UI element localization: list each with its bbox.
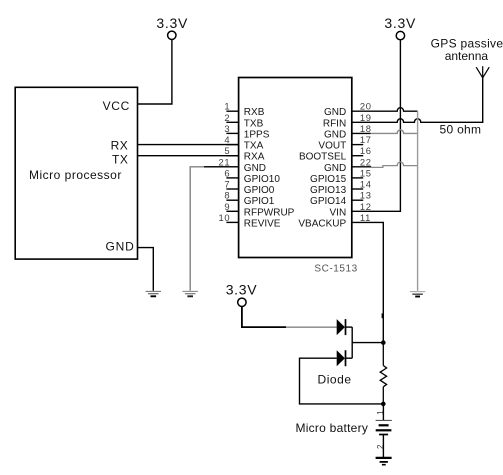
svg-text:1: 1 [224,101,230,112]
svg-text:TX: TX [112,153,128,167]
pin 10 REVIVE [218,212,280,230]
svg-text:12: 12 [360,201,372,212]
wire GND down [138,248,154,291]
svg-text:5: 5 [224,145,230,156]
svg-text:18: 18 [360,123,372,134]
svg-text:10: 10 [218,212,230,223]
svg-text:RFPWRUP: RFPWRUP [244,207,295,218]
wire GND pin21 (grey) [190,167,238,291]
diode D1 [337,319,353,335]
svg-text:GPIO14: GPIO14 [310,196,347,207]
pin 20 GND [324,101,372,119]
svg-text:SC-1513: SC-1513 [314,263,357,274]
svg-text:BOOTSEL: BOOTSEL [299,152,347,163]
pin 2 TXB [224,112,263,130]
svg-text:21: 21 [218,156,230,167]
svg-text:22: 22 [360,156,372,167]
svg-text:8: 8 [224,190,230,201]
svg-text:16: 16 [360,145,372,156]
svg-text:15: 15 [360,167,372,178]
resistor R1 [380,343,386,404]
pin 4 TXA [224,134,263,152]
svg-text:GND: GND [324,107,346,118]
wire TX to RXA [138,155,239,157]
wire ground bus vertical (grey) [417,111,419,291]
svg-text:VIN: VIN [330,207,347,218]
svg-text:1: 1 [376,410,385,415]
svg-text:GND: GND [106,240,135,254]
svg-text:3.3V: 3.3V [156,15,188,31]
pin 3 1PPS [224,123,269,141]
svg-text:TXB: TXB [244,118,264,129]
svg-text:2: 2 [376,444,385,449]
IC U1 SC-1513 box [239,78,352,258]
svg-text:RX: RX [111,138,129,152]
svg-text:14: 14 [360,179,372,190]
wire cathode tap to battery net [352,342,383,344]
svg-text:3.3V: 3.3V [384,15,416,31]
svg-text:3: 3 [224,123,230,134]
pin 12 VIN [330,201,372,219]
svg-text:RXA: RXA [244,152,265,163]
svg-text:9: 9 [224,201,230,212]
svg-text:2: 2 [224,112,230,123]
diode D2 [337,350,353,366]
pin 18 GND [324,123,372,141]
svg-text:VCC: VCC [103,99,130,113]
pin 14 GPIO13 [310,179,372,197]
svg-text:VBACKUP: VBACKUP [298,218,346,229]
pin 16 BOOTSEL [299,145,372,163]
svg-text:GND: GND [244,163,266,174]
wire 3.3V to VIN pin 12 [352,40,401,211]
junction node B [381,402,386,407]
wire D2 anode loop to battery + [300,358,384,404]
svg-text:GPIO15: GPIO15 [310,174,347,185]
ground (battery) [376,458,392,465]
pin 13 GPIO14 [310,190,372,208]
svg-text:4: 4 [224,134,230,145]
power symbol 3.3V (bottom) [226,282,258,307]
wire pin 19 RFIN to antenna (hops) [352,78,483,123]
pin 17 VOUT [318,134,371,152]
junction node A [381,340,386,345]
pin 22 GND [324,156,372,174]
pin 11 VBACKUP [298,212,371,230]
svg-text:50 ohm: 50 ohm [440,122,482,136]
svg-text:GND: GND [324,129,346,140]
svg-text:20: 20 [360,101,372,112]
svg-text:VOUT: VOUT [318,141,346,152]
svg-text:RXB: RXB [244,107,265,118]
antenna ANT1 [476,66,489,78]
svg-text:TXA: TXA [244,141,264,152]
svg-text:antenna: antenna [445,49,489,63]
wire pin 22 GND to ground bus [352,162,418,167]
power symbol 3.3V (top right) [384,15,416,40]
wire pin 20 GND to ground bus (hop over 3.3V wire) [352,108,418,112]
wire pin 18 GND to ground bus [352,130,418,134]
svg-text:GPIO1: GPIO1 [244,196,275,207]
pin 6 GPIO10 [224,167,280,185]
wire VBACKUP pin 11 down [352,222,384,342]
wire jog artifact [382,313,384,318]
svg-text:REVIVE: REVIVE [244,218,281,229]
wire 3.3V to VCC [138,40,172,104]
pin 8 GPIO1 [224,190,274,208]
pin 9 RFPWRUP [224,201,294,219]
svg-text:17: 17 [360,134,372,145]
svg-text:13: 13 [360,190,372,201]
svg-text:GPIO13: GPIO13 [310,185,347,196]
wire diode cathodes join [351,327,353,358]
svg-text:1PPS: 1PPS [244,129,270,140]
pin 1 RXB [224,101,264,119]
svg-text:GND: GND [324,163,346,174]
svg-text:3.3V: 3.3V [226,282,258,298]
svg-text:19: 19 [360,112,372,123]
svg-text:GPIO10: GPIO10 [244,174,281,185]
svg-text:RFIN: RFIN [323,118,346,129]
svg-text:Micro processor: Micro processor [29,168,122,182]
power symbol 3.3V (left) [156,15,188,40]
pin 19 RFIN [323,112,372,130]
pin 7 GPIO0 [224,179,274,197]
svg-text:6: 6 [224,167,230,178]
pin 5 RXA [224,145,264,163]
battery BT1 [376,404,392,458]
svg-text:7: 7 [224,179,230,190]
svg-text:Diode: Diode [318,372,352,386]
wire RX to TXA [138,144,239,146]
ground (bus) [410,292,425,297]
micro processor box U2 [15,87,137,259]
svg-text:11: 11 [360,212,371,223]
pin 15 GPIO15 [310,167,372,185]
pin 21 GND [204,156,266,174]
ground (micro processor) [146,291,161,296]
svg-text:Micro battery: Micro battery [296,421,369,435]
wire 3.3V to diode D1 anode [242,307,337,328]
ground (pin 21 net) [183,291,198,296]
svg-text:GPIO0: GPIO0 [244,185,275,196]
